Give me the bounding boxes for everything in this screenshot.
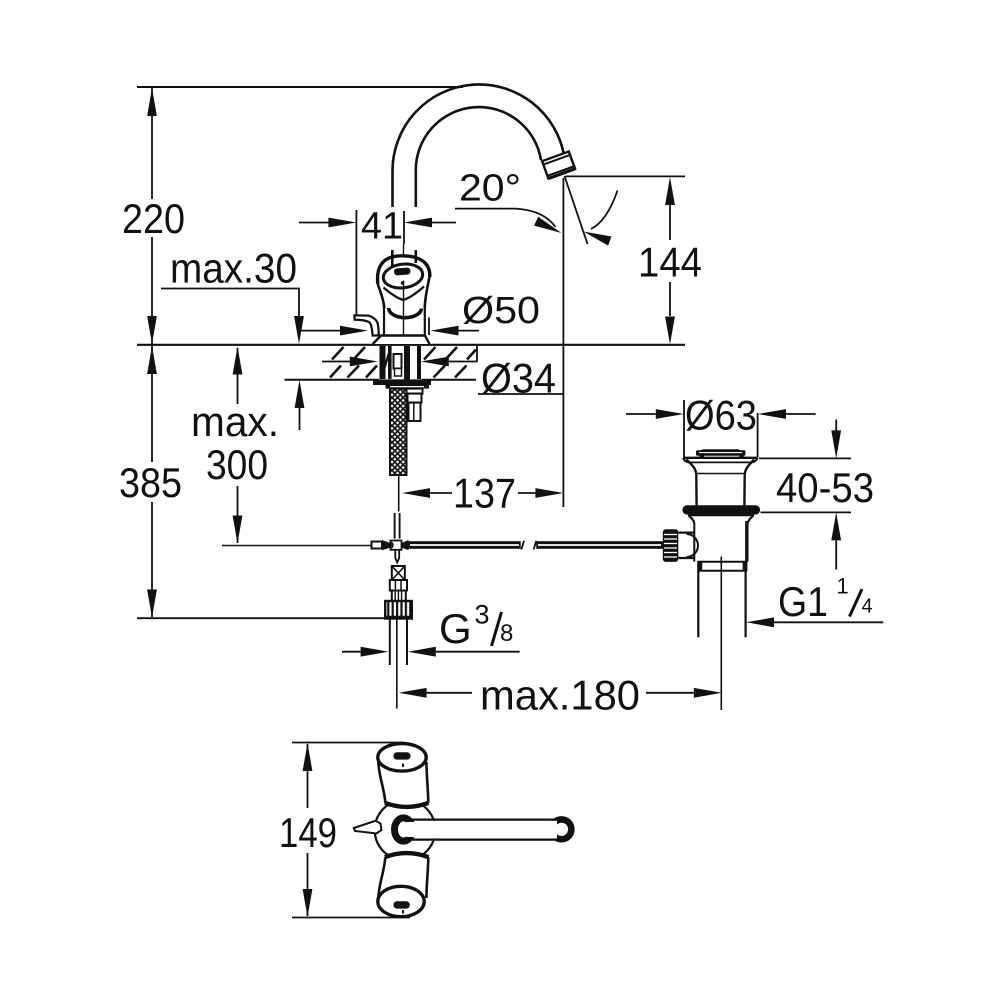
G3/8 threaded adapter stack — [392, 566, 405, 580]
svg-text:8: 8 — [500, 620, 513, 647]
Ø50 right extension line — [428, 318, 430, 336]
vertical pop-up rod — [395, 513, 400, 539]
svg-text:149: 149 — [279, 809, 337, 856]
dimension G3/8 — [342, 651, 361, 653]
wire bottom reference line of 385 dim — [137, 617, 386, 619]
svg-text:G1: G1 — [778, 578, 828, 625]
top handle cap — [378, 744, 426, 772]
knob neck — [678, 531, 694, 533]
svg-text:137: 137 — [453, 470, 516, 517]
dimension G1 1/4 — [774, 621, 883, 623]
top handle (top view) — [378, 756, 428, 804]
countertop surface line — [137, 344, 685, 346]
escutcheon base — [373, 336, 430, 345]
dimension max.30 leader line — [161, 289, 300, 431]
svg-text:385: 385 — [119, 459, 182, 506]
knurled knob — [663, 529, 679, 562]
tube centerline — [396, 619, 398, 709]
G3/8 threaded tube — [389, 619, 391, 666]
supply stub fitting — [407, 389, 423, 421]
drain body — [693, 523, 695, 562]
20 degree leader with arrow — [455, 209, 556, 227]
dimension 144 vertical line — [669, 205, 671, 316]
rod extension line (left) — [222, 545, 372, 547]
spout collar ring — [395, 818, 413, 841]
dimension Ø34 — [322, 361, 352, 363]
braided supply hose — [390, 389, 407, 475]
svg-text:220: 220 — [122, 195, 185, 242]
drain funnel body — [687, 460, 697, 506]
dimension Ø50 — [299, 330, 341, 332]
vertical extension line from spout tip — [562, 178, 564, 507]
dimension max.300 vertical line — [237, 348, 239, 543]
horizontal actuating rod (left segment) — [408, 541, 521, 549]
bottom handle cap — [378, 886, 424, 916]
svg-text:4: 4 — [862, 596, 873, 618]
central body circle — [375, 800, 436, 861]
svg-text:20°: 20° — [459, 168, 521, 210]
svg-text:41: 41 — [361, 206, 403, 248]
flange lip — [688, 514, 754, 516]
20 degree arc with arrow — [591, 191, 618, 230]
rod break — [521, 541, 524, 550]
cutout corner for Ø34 label — [476, 345, 478, 362]
svg-text:3: 3 — [475, 600, 490, 630]
horizontal actuating rod (right segment) — [536, 541, 663, 549]
svg-text:144: 144 — [638, 239, 702, 286]
drain centerline — [720, 557, 722, 711]
dimension 220 vertical line — [151, 88, 153, 344]
dimension 41 — [355, 210, 357, 316]
rubber gasket ring — [683, 505, 761, 514]
spout arc inner — [416, 107, 541, 207]
body sides — [383, 303, 385, 336]
countertop slab bottom line — [285, 379, 477, 381]
drain plug cap — [700, 449, 741, 450]
tilted 20 degree stream line — [565, 176, 588, 244]
handle rim ellipse — [382, 262, 424, 290]
bottom handle (top view) — [378, 856, 428, 904]
aerator at spout tip — [542, 151, 575, 178]
svg-text:max.180: max.180 — [480, 672, 640, 719]
svg-text:G: G — [439, 605, 472, 652]
svg-text:40-53: 40-53 — [776, 464, 874, 511]
spout bar (top view) — [548, 816, 574, 842]
lever (top view) — [354, 821, 382, 834]
dimension 149 top reference line — [292, 742, 404, 744]
faucet centerline — [403, 244, 405, 390]
handle dot — [401, 281, 405, 285]
G3/8 connection nut — [385, 601, 412, 619]
drain tailpipe — [697, 571, 699, 637]
drain flange top — [683, 457, 758, 459]
wire top reference line of 220 dim — [137, 86, 463, 88]
shank through countertop — [379, 346, 422, 379]
body bottom ellipse arc — [389, 308, 422, 318]
dimension max.180 — [427, 692, 472, 694]
svg-text:max.30: max.30 — [170, 245, 297, 292]
faucet handle dome — [378, 256, 430, 284]
dimension 149 bottom reference line — [292, 917, 410, 919]
handle grip dash — [394, 267, 411, 275]
spout arc outer — [393, 84, 565, 207]
svg-text:Ø63: Ø63 — [685, 392, 757, 439]
coupling ring — [698, 561, 748, 563]
flange nut under countertop — [373, 380, 431, 385]
rod lower stem — [395, 551, 399, 563]
dimension 149 vertical line — [307, 744, 309, 916]
rod clamp joint — [372, 542, 383, 549]
wire spout leg into handle — [391, 250, 394, 266]
svg-text:1: 1 — [837, 574, 849, 599]
countertop hatching — [330, 347, 476, 378]
lever handle — [355, 315, 379, 335]
dimension 144 top reference line — [566, 175, 686, 177]
dimension 385 vertical line — [151, 346, 153, 617]
top handle base arc — [385, 803, 429, 807]
bottom handle base arc — [385, 853, 429, 857]
dimension Ø63 — [626, 413, 656, 415]
dimension 40-53 — [759, 457, 851, 459]
svg-text:Ø50: Ø50 — [462, 290, 540, 332]
svg-text:max.: max. — [191, 398, 279, 445]
svg-text:300: 300 — [206, 441, 268, 488]
handle skirt V — [384, 287, 425, 301]
pull rod wire — [398, 475, 400, 512]
